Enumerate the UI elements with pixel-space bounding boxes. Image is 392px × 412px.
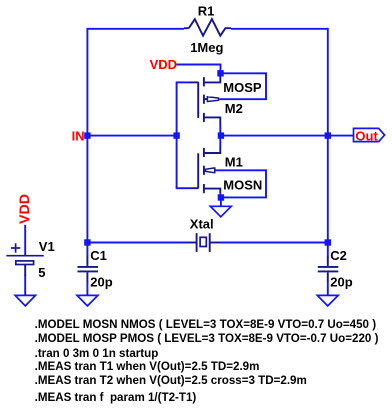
spice directive .MODEL MOSN <box>35 318 377 331</box>
net label IN <box>72 128 85 143</box>
M1 label <box>225 155 243 170</box>
spice directive .MEAS T2 <box>35 374 307 387</box>
wire Out junction to flag <box>328 135 354 137</box>
wire V1 minus to ground <box>24 275 26 295</box>
svg-text:.MEAS tran T1 when V(Out)=2.5: .MEAS tran T1 when V(Out)=2.5 TD=2.9m <box>35 360 260 373</box>
svg-text:M2: M2 <box>225 101 243 116</box>
spice directive .MEAS T1 <box>35 360 260 373</box>
svg-text:.MEAS tran T2 when V(Out)=2.5: .MEAS tran T2 when V(Out)=2.5 cross=3 TD… <box>35 374 307 387</box>
M2 model label MOSP <box>223 80 262 95</box>
ground below C2 <box>317 295 338 306</box>
transistor M1 (NMOS MOSN) <box>191 147 221 194</box>
wire C2 top lead <box>327 243 329 258</box>
svg-text:Out: Out <box>355 128 378 143</box>
wire gate bus vertical <box>176 82 178 188</box>
node C2 junction <box>325 239 331 245</box>
wire gate lead top <box>176 81 191 83</box>
net label VDD (top, at M2 source) <box>150 57 177 72</box>
svg-text:.MODEL MOSN NMOS ( LEVEL=3 TOX: .MODEL MOSN NMOS ( LEVEL=3 TOX=8E-9 VTO=… <box>35 318 377 331</box>
Xtal label <box>190 217 214 232</box>
R1 value 1Meg <box>190 40 223 55</box>
V1 label <box>39 239 55 254</box>
wire MOSP bulk-source box <box>220 73 266 99</box>
node M1 source <box>218 194 224 200</box>
node VDD at M2 source <box>217 70 223 76</box>
node gate bus junction <box>173 132 179 138</box>
R1 label <box>198 4 215 19</box>
wire top rail left segment <box>87 28 184 30</box>
C1 label <box>90 248 107 263</box>
svg-text:MOSP: MOSP <box>223 80 262 95</box>
wire M1 source to ground node <box>219 193 221 197</box>
wire output node to Out junction <box>221 135 328 137</box>
svg-text:R1: R1 <box>198 4 215 19</box>
ground below M1 <box>210 206 231 217</box>
wire IN horizontal to gate bus <box>87 135 176 137</box>
spice directive .MODEL MOSP <box>35 332 379 345</box>
wire C1 bottom to ground <box>86 281 88 295</box>
spice directive .MEAS f <box>35 391 197 404</box>
svg-text:Xtal: Xtal <box>190 217 214 232</box>
svg-text:.MODEL MOSP PMOS ( LEVEL=3 TOX: .MODEL MOSP PMOS ( LEVEL=3 TOX=8E-9 VTO=… <box>35 332 379 345</box>
svg-text:M1: M1 <box>225 155 243 170</box>
wire VDD label to V1 plus <box>24 225 26 255</box>
C2 label <box>330 248 347 263</box>
svg-text:.MEAS tran f param 1/(T2-T1): .MEAS tran f param 1/(T2-T1) <box>35 391 197 404</box>
resistor R1 <box>184 19 231 36</box>
ground below V1 <box>15 295 35 306</box>
capacitor C1 <box>78 257 99 282</box>
C2 value 20p <box>330 275 352 290</box>
M1 model label MOSN <box>223 177 262 192</box>
wire top rail right segment <box>231 28 328 30</box>
V1 value 5 <box>38 265 45 280</box>
svg-text:20p: 20p <box>330 275 352 290</box>
wire C1 top lead <box>86 243 88 258</box>
svg-text:VDD: VDD <box>150 57 177 72</box>
wire C2 bottom to ground <box>327 281 329 295</box>
crystal Xtal <box>188 233 220 252</box>
wire output node to M1 drain <box>219 136 221 147</box>
wire bottom rail right segment <box>219 242 328 244</box>
wire VDD to M2 source <box>177 65 221 71</box>
capacitor C2 <box>318 257 339 282</box>
node C1 junction <box>84 239 90 245</box>
svg-text:IN: IN <box>72 128 85 143</box>
svg-text:20p: 20p <box>90 275 112 290</box>
wire gate lead bottom <box>176 187 191 189</box>
wire MOSN bulk-source box <box>216 170 266 197</box>
voltage source V1 <box>6 243 43 276</box>
svg-text:5: 5 <box>38 265 45 280</box>
wire M2 drain to output node <box>219 126 221 136</box>
svg-text:VDD: VDD <box>17 194 33 224</box>
svg-text:1Meg: 1Meg <box>190 40 223 55</box>
wire left vertical (IN net) <box>86 28 88 243</box>
wire bottom rail left segment <box>87 242 187 244</box>
C1 value 20p <box>90 275 112 290</box>
wire ground stub below M1 <box>220 198 222 207</box>
net label VDD (left, rotated) <box>17 194 33 224</box>
port flag Out <box>354 128 385 143</box>
spice directive .tran <box>35 347 159 360</box>
node IN port <box>84 132 90 138</box>
node inverter output <box>218 132 224 138</box>
transistor M2 (PMOS MOSP) <box>191 76 221 126</box>
svg-text:C1: C1 <box>90 248 107 263</box>
svg-text:V1: V1 <box>39 239 55 254</box>
ground below C1 <box>77 295 98 306</box>
svg-text:MOSN: MOSN <box>223 177 262 192</box>
wire right vertical (Out net) <box>327 28 329 243</box>
node Out junction <box>325 132 331 138</box>
svg-text:.tran 0 3m 0 1n startup: .tran 0 3m 0 1n startup <box>35 347 159 360</box>
svg-text:C2: C2 <box>330 248 347 263</box>
M2 label <box>225 101 243 116</box>
